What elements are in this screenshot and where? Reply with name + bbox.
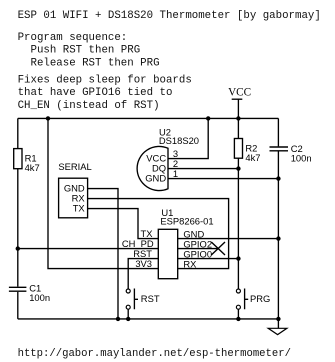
node U1 GND to right vertical bbox=[276, 236, 280, 240]
node rail to VCC stem bbox=[236, 116, 240, 120]
wire sensor GND pin1 bbox=[168, 178, 278, 180]
node PRG button to rail bbox=[236, 317, 240, 321]
wire R2 top stem bbox=[237, 118, 239, 138]
wire sensor DQ pin2 bbox=[168, 168, 238, 170]
node CH_PD tap on left rail bbox=[16, 246, 20, 250]
svg-text:100n: 100n bbox=[29, 292, 50, 303]
node GPIO0 to PRG net bbox=[236, 256, 240, 260]
svg-text:http://gabor.maylander.net/esp: http://gabor.maylander.net/esp-thermomet… bbox=[18, 348, 291, 360]
wire RST pin to RST button bbox=[128, 259, 158, 289]
svg-text:DS18S20: DS18S20 bbox=[159, 135, 199, 146]
wire VCC feed to 3V3 pin bbox=[48, 118, 158, 268]
wire right vertical upper (rail corner to C2) bbox=[277, 118, 279, 146]
wire VCC symbol stem bbox=[237, 99, 239, 118]
wire RST button to ground rail bbox=[127, 309, 129, 319]
no-connect X on GPIO2 bbox=[211, 242, 225, 255]
VCC power symbol bbox=[228, 87, 251, 100]
ground bbox=[268, 328, 287, 334]
svg-text:RX: RX bbox=[183, 259, 197, 270]
wire serial TX to U1 TX bbox=[88, 209, 159, 239]
svg-text:ESP 01 WIFI + DS18S20 Thermome: ESP 01 WIFI + DS18S20 Thermometer [by ga… bbox=[18, 10, 321, 22]
resistor R1 bbox=[14, 149, 40, 173]
svg-text:Release RST then PRG: Release RST then PRG bbox=[18, 57, 160, 69]
wire left rail mid (R1 to C1) bbox=[17, 169, 19, 287]
wire serial RX to U1 RX bbox=[88, 199, 229, 269]
wire left rail upper (rail to R1) bbox=[17, 118, 19, 148]
wire right vertical lower (C2 to ground) bbox=[277, 151, 279, 319]
node sensor GND to right vertical bbox=[276, 176, 280, 180]
svg-text:4k7: 4k7 bbox=[25, 162, 40, 173]
node serial GND to rail bbox=[116, 317, 120, 321]
svg-text:100n: 100n bbox=[291, 153, 312, 164]
wire CH_PD pull-up net bbox=[18, 248, 159, 250]
node rail to sensor pin3 bbox=[206, 116, 210, 120]
wire PRG button to ground rail bbox=[237, 309, 239, 319]
wire sensor pin3 to rail bbox=[168, 118, 208, 158]
wire left rail lower (C1 to bottom) bbox=[17, 292, 19, 319]
pushbutton PRG bbox=[236, 289, 270, 310]
capacitor C2 bbox=[270, 143, 312, 164]
svg-text:3V3: 3V3 bbox=[135, 258, 152, 269]
wire ground stem bbox=[277, 319, 279, 328]
svg-text:SERIAL: SERIAL bbox=[58, 161, 91, 172]
wire GPIO2 stub bbox=[178, 248, 218, 250]
svg-text:GND: GND bbox=[145, 173, 166, 184]
node rail to ground symbol bbox=[276, 317, 280, 321]
sensor U2 DS18S20 body bbox=[137, 127, 199, 191]
svg-text:Push RST then PRG: Push RST then PRG bbox=[18, 45, 141, 57]
svg-text:CH_EN (instead of RST): CH_EN (instead of RST) bbox=[18, 100, 160, 112]
capacitor C1 bbox=[9, 282, 50, 303]
svg-text:4k7: 4k7 bbox=[245, 152, 260, 163]
node DQ to R2 bbox=[236, 166, 240, 170]
wire GPIO0 bbox=[178, 258, 239, 260]
wire top VCC rail bbox=[18, 117, 279, 119]
wire serial GND to bottom rail bbox=[88, 189, 118, 319]
node rail to 3V3 feed bbox=[46, 116, 50, 120]
serial header bbox=[58, 161, 91, 218]
ESP module U1 ESP8266-01 bbox=[122, 207, 214, 279]
wire R2 bottom / DQ-GPIO0-PRG vertical bbox=[237, 158, 239, 289]
svg-text:1: 1 bbox=[173, 168, 178, 179]
pushbutton RST bbox=[126, 289, 160, 310]
svg-text:VCC: VCC bbox=[228, 87, 251, 99]
node RST button to rail bbox=[126, 317, 130, 321]
wire U1 GND to ground bbox=[178, 238, 279, 240]
svg-text:Program sequence:: Program sequence: bbox=[18, 32, 128, 44]
svg-text:Fixes deep sleep for boards: Fixes deep sleep for boards bbox=[18, 74, 192, 86]
svg-text:PRG: PRG bbox=[250, 293, 270, 304]
wire bottom ground rail bbox=[18, 318, 279, 320]
svg-text:that have GPIO16 tied to: that have GPIO16 tied to bbox=[18, 87, 173, 99]
resistor R2 bbox=[234, 139, 260, 164]
svg-text:RST: RST bbox=[141, 293, 160, 304]
svg-text:ESP8266-01: ESP8266-01 bbox=[160, 215, 213, 226]
svg-text:TX: TX bbox=[73, 203, 86, 214]
